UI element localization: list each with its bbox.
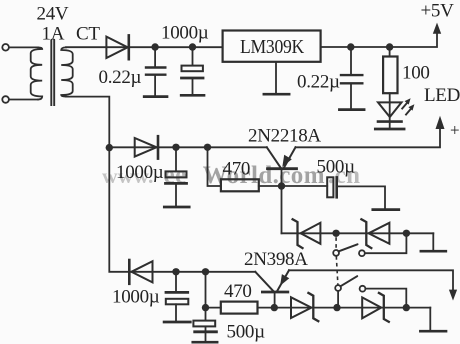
svg-text:+5V: +5V [421, 1, 455, 22]
svg-text:500µ: 500µ [317, 157, 356, 178]
svg-text:2N2218A: 2N2218A [248, 126, 321, 147]
svg-text:CT: CT [76, 24, 100, 45]
svg-text:470: 470 [223, 159, 251, 180]
svg-text:1A: 1A [42, 24, 65, 45]
svg-text:1000µ: 1000µ [116, 162, 164, 183]
svg-text:+: + [450, 121, 459, 140]
svg-text:1000µ: 1000µ [161, 23, 209, 44]
svg-text:0.22µ: 0.22µ [297, 72, 340, 93]
svg-text:500µ: 500µ [227, 322, 266, 343]
svg-text:24V: 24V [37, 4, 69, 25]
svg-text:LED: LED [424, 85, 460, 106]
svg-text:2N398A: 2N398A [244, 249, 308, 270]
svg-text:0.22µ: 0.22µ [99, 67, 142, 88]
svg-text:470: 470 [224, 281, 252, 302]
svg-text:LM309K: LM309K [240, 36, 305, 58]
svg-text:100: 100 [402, 63, 430, 84]
svg-text:1000µ: 1000µ [112, 287, 160, 308]
